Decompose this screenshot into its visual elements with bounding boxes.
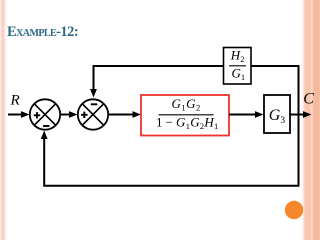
S2 plus sign: [81, 112, 87, 118]
wire S1 to S2: [60, 111, 77, 118]
summing junction S2: [78, 99, 108, 129]
wire: top feedback from output tap through H2/G1 into summing junction S2: [90, 66, 298, 115]
block G3: [264, 95, 290, 133]
wire: bottom feedback from output tap to summing junction S1: [41, 115, 299, 186]
left margin stripe: [0, 0, 7, 240]
svg-text:R: R: [10, 92, 20, 108]
svg-text:C: C: [303, 91, 314, 108]
summing junction S1: [30, 99, 60, 129]
S2 minus sign: [91, 103, 97, 105]
wire red block to G3: [229, 111, 264, 118]
decorative orange dot: [285, 201, 303, 219]
wire: input R arrow: [8, 111, 30, 118]
wire output C arrow: [290, 111, 312, 118]
block H2/G1: [224, 48, 252, 85]
right margin stripe band: [300, 0, 320, 240]
title Example-12:: [7, 24, 78, 41]
wire S2 to block G1G2/(1-G1G2H1): [108, 111, 141, 118]
S1 plus sign: [34, 112, 40, 118]
S1 minus sign: [43, 125, 49, 127]
block G1G2/(1-G1G2H1) (red): [141, 95, 229, 136]
